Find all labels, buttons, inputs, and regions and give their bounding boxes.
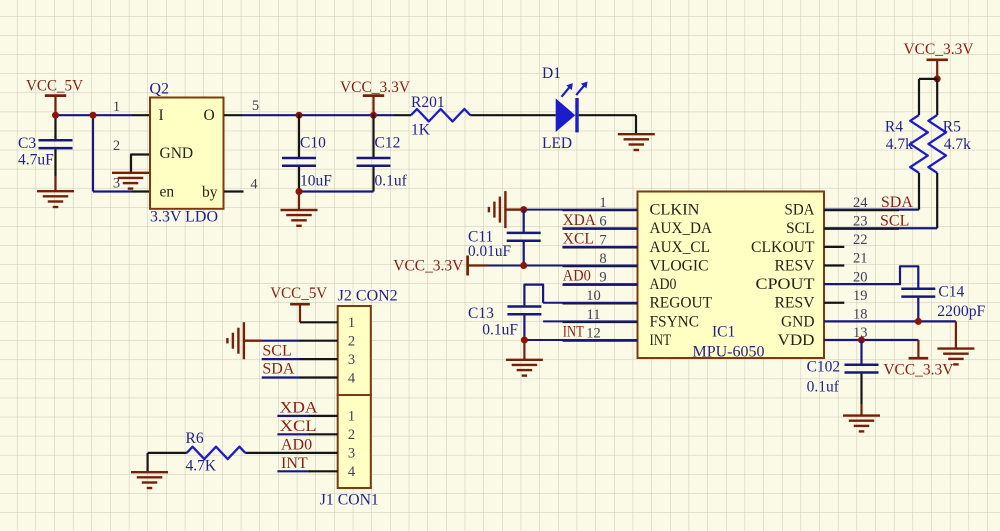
svg-text:INT: INT [563,324,584,341]
svg-text:XDA: XDA [280,399,318,416]
svg-text:VCC_3.3V: VCC_3.3V [904,41,974,58]
svg-text:0.01uF: 0.01uF [468,243,511,260]
svg-text:4.7uF: 4.7uF [18,152,54,169]
svg-text:1: 1 [348,315,355,331]
svg-text:SCL: SCL [880,212,909,229]
svg-text:AD0: AD0 [650,276,677,293]
svg-text:4.7k: 4.7k [944,136,971,153]
svg-text:en: en [160,184,175,201]
svg-text:CLKOUT: CLKOUT [751,239,815,256]
svg-text:12: 12 [586,325,601,341]
svg-text:6: 6 [599,214,606,230]
svg-text:R6: R6 [186,430,204,447]
svg-text:R4: R4 [885,119,903,136]
svg-text:XDA: XDA [563,212,596,229]
svg-text:22: 22 [853,232,868,248]
svg-text:AUX_CL: AUX_CL [650,239,711,256]
svg-text:INT: INT [650,332,672,349]
svg-text:3: 3 [348,352,355,368]
svg-text:4: 4 [250,177,258,193]
svg-text:4: 4 [348,464,356,480]
svg-text:20: 20 [853,269,868,285]
svg-text:5: 5 [252,98,259,114]
svg-text:4: 4 [348,370,356,386]
svg-text:LED: LED [542,135,572,152]
svg-text:VDD: VDD [778,332,815,349]
svg-text:INT: INT [281,455,308,472]
svg-text:C14: C14 [938,283,964,300]
svg-text:AUX_DA: AUX_DA [650,220,713,237]
svg-text:VCC_3.3V: VCC_3.3V [883,362,953,379]
svg-text:18: 18 [853,307,868,323]
svg-text:21: 21 [853,251,868,267]
svg-text:3: 3 [113,176,120,192]
svg-text:0.1uF: 0.1uF [482,322,518,339]
svg-text:GND: GND [160,145,194,162]
svg-text:VCC_5V: VCC_5V [26,78,83,95]
svg-text:by: by [202,184,218,201]
svg-text:24: 24 [853,195,868,211]
svg-text:C3: C3 [18,135,36,152]
svg-text:MPU-6050: MPU-6050 [693,344,765,361]
svg-text:C13: C13 [468,305,494,322]
svg-text:SDA: SDA [881,194,913,211]
svg-text:3: 3 [348,446,355,462]
svg-text:SDA: SDA [262,361,294,378]
svg-text:XCL: XCL [563,230,594,247]
svg-text:1: 1 [348,409,355,425]
svg-text:REGOUT: REGOUT [650,295,713,312]
svg-text:R5: R5 [943,119,961,136]
svg-text:CLKIN: CLKIN [650,202,700,219]
svg-text:SCL: SCL [786,220,815,237]
svg-text:2: 2 [113,138,120,154]
svg-text:I: I [159,107,164,124]
svg-text:10uF: 10uF [300,173,332,190]
svg-text:2: 2 [348,334,355,350]
svg-text:VCC_3.3V: VCC_3.3V [340,79,410,96]
svg-text:GND: GND [781,313,815,330]
svg-text:23: 23 [853,213,868,229]
svg-text:XCL: XCL [280,418,317,435]
svg-text:VCC_3.3V: VCC_3.3V [393,258,463,275]
svg-text:FSYNC: FSYNC [650,313,700,330]
svg-text:VCC_5V: VCC_5V [270,285,327,302]
svg-text:C102: C102 [807,359,841,376]
svg-text:1: 1 [599,195,606,211]
svg-text:2: 2 [348,427,355,443]
svg-text:CPOUT: CPOUT [756,276,816,293]
svg-text:SCL: SCL [262,342,291,359]
svg-text:7: 7 [599,232,606,248]
svg-text:11: 11 [587,307,601,323]
svg-text:3.3V LDO: 3.3V LDO [150,209,218,226]
svg-text:4.7k: 4.7k [886,136,913,153]
svg-text:4.7K: 4.7K [186,458,217,475]
svg-text:D1: D1 [542,65,561,82]
svg-text:1: 1 [113,99,120,115]
svg-text:19: 19 [853,288,868,304]
svg-text:9: 9 [599,270,606,286]
svg-text:1K: 1K [411,122,431,139]
svg-text:C10: C10 [300,135,326,152]
svg-text:IC1: IC1 [712,324,735,341]
svg-text:10: 10 [586,288,601,304]
svg-text:RESV: RESV [775,295,816,312]
svg-text:SDA: SDA [785,202,816,219]
svg-text:VLOGIC: VLOGIC [650,257,709,274]
svg-text:RESV: RESV [775,257,816,274]
svg-text:AD0: AD0 [563,268,591,285]
svg-text:O: O [204,107,215,124]
svg-text:J2 CON2: J2 CON2 [338,288,398,305]
svg-text:0.1uf: 0.1uf [807,378,840,395]
svg-text:C12: C12 [375,135,401,152]
svg-text:Q2: Q2 [150,81,170,98]
svg-text:2200pF: 2200pF [937,303,985,320]
svg-text:AD0: AD0 [281,436,312,453]
svg-text:8: 8 [599,251,606,267]
svg-text:0.1uf: 0.1uf [375,173,408,190]
svg-text:J1 CON1: J1 CON1 [320,492,379,509]
